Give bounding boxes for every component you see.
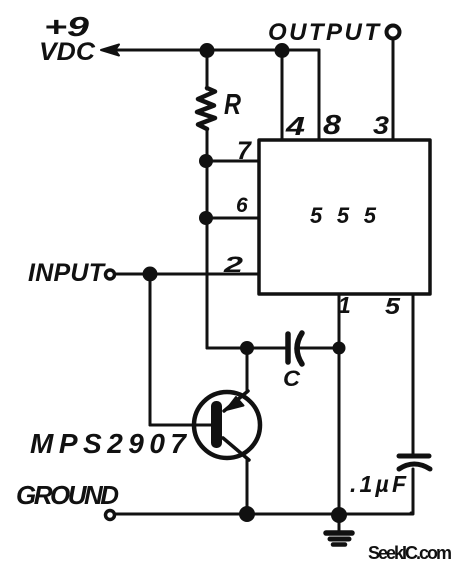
wire: emitter up to capacitor node bbox=[246, 348, 249, 392]
node: supply / resistor junction bbox=[200, 43, 215, 58]
svg-text:VDC: VDC bbox=[39, 38, 96, 66]
wire: pin 7 bbox=[206, 160, 259, 163]
svg-text:3: 3 bbox=[373, 112, 389, 140]
node: emitter/capacitor junction bbox=[240, 341, 254, 355]
svg-text:SeekIC.com: SeekIC.com bbox=[368, 543, 452, 563]
capacitor C: left plate bbox=[285, 334, 291, 362]
wire: ground rail bbox=[116, 513, 413, 516]
transistor Q1: MPS2907 circle bbox=[194, 392, 260, 458]
node: input junction bbox=[143, 267, 158, 282]
capacitor C2 (.1 uF): top plate bbox=[399, 454, 429, 459]
svg-text:MPS2907: MPS2907 bbox=[30, 428, 187, 459]
wire: from supply node down to resistor bbox=[206, 50, 209, 89]
svg-text:7: 7 bbox=[237, 137, 252, 165]
node: pin1/ground junction bbox=[331, 507, 347, 523]
node: pin 6 junction bbox=[199, 211, 213, 225]
op-amp/IC U1: 555 timer box bbox=[259, 140, 430, 294]
svg-text:2: 2 bbox=[222, 252, 244, 277]
svg-text:8: 8 bbox=[323, 109, 341, 140]
svg-text:5: 5 bbox=[385, 293, 401, 319]
transistor base bar bbox=[211, 401, 222, 448]
svg-text:R: R bbox=[224, 89, 241, 121]
wire: resistor bottom down to capacitor C level bbox=[206, 129, 209, 348]
node: output junction bbox=[275, 43, 290, 58]
svg-text:6: 6 bbox=[236, 194, 248, 217]
wire: pin 1 down to ground rail bbox=[338, 294, 341, 514]
wire: pin 6 bbox=[206, 217, 259, 220]
terminal: GROUND bbox=[106, 511, 115, 520]
node: pin 1 / capacitor junction bbox=[333, 342, 346, 355]
svg-text:1: 1 bbox=[338, 292, 351, 318]
wire: .1uF cap down to ground rail corner bbox=[411, 469, 413, 513]
wire: pin 8 drop bbox=[318, 50, 321, 140]
capacitor C2: curved bottom plate bbox=[399, 464, 430, 469]
wire: horizontal to capacitor C bbox=[207, 347, 286, 350]
transistor emitter (arrow toward base = PNP) bbox=[224, 391, 248, 411]
ground symbol bbox=[338, 515, 341, 532]
resistor R bbox=[197, 88, 215, 129]
terminal: OUTPUT bbox=[387, 26, 400, 39]
transistor collector bbox=[223, 438, 249, 460]
node: collector/ground junction bbox=[239, 506, 255, 522]
capacitor C: curved plate bbox=[297, 333, 302, 364]
wire: pin 4 drop bbox=[281, 50, 284, 140]
wire: collector down to ground rail bbox=[246, 459, 249, 514]
svg-text:GROUND: GROUND bbox=[16, 480, 119, 510]
svg-text:OUTPUT: OUTPUT bbox=[268, 19, 381, 46]
wire: pin 2 from INPUT bbox=[116, 273, 259, 276]
svg-text:C: C bbox=[283, 366, 301, 391]
node: pin 7 junction bbox=[199, 154, 213, 168]
terminal: INPUT bbox=[106, 270, 115, 279]
arrow to +9 VDC bbox=[101, 45, 119, 56]
svg-text:INPUT: INPUT bbox=[28, 259, 107, 287]
wire: pin 3 drop from OUTPUT terminal bbox=[392, 41, 395, 140]
wire: pin 5 down to .1uF cap bbox=[412, 294, 415, 454]
wire: capacitor C to pin 1 line bbox=[297, 347, 339, 350]
svg-text:555: 555 bbox=[310, 203, 377, 228]
wire: +9 VDC supply rail (top horizontal) bbox=[113, 49, 319, 52]
wire: input node down to transistor base bbox=[149, 274, 152, 425]
svg-text:4: 4 bbox=[285, 111, 306, 141]
wire: transistor base lead bbox=[150, 424, 213, 427]
svg-text:.1µF: .1µF bbox=[350, 471, 407, 497]
